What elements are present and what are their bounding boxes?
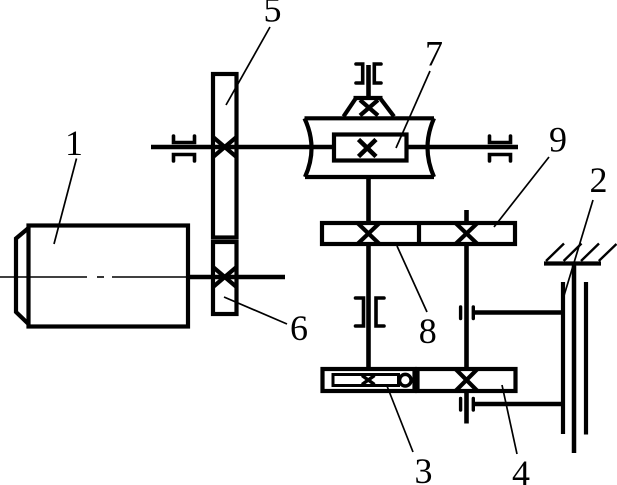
svg-text:6: 6	[290, 308, 308, 348]
svg-text:5: 5	[264, 0, 282, 30]
svg-text:2: 2	[590, 160, 608, 200]
svg-text:9: 9	[549, 120, 567, 160]
svg-text:1: 1	[65, 123, 83, 163]
svg-text:3: 3	[415, 451, 433, 485]
svg-text:8: 8	[419, 311, 437, 351]
svg-text:7: 7	[425, 34, 443, 74]
svg-text:4: 4	[512, 453, 530, 485]
